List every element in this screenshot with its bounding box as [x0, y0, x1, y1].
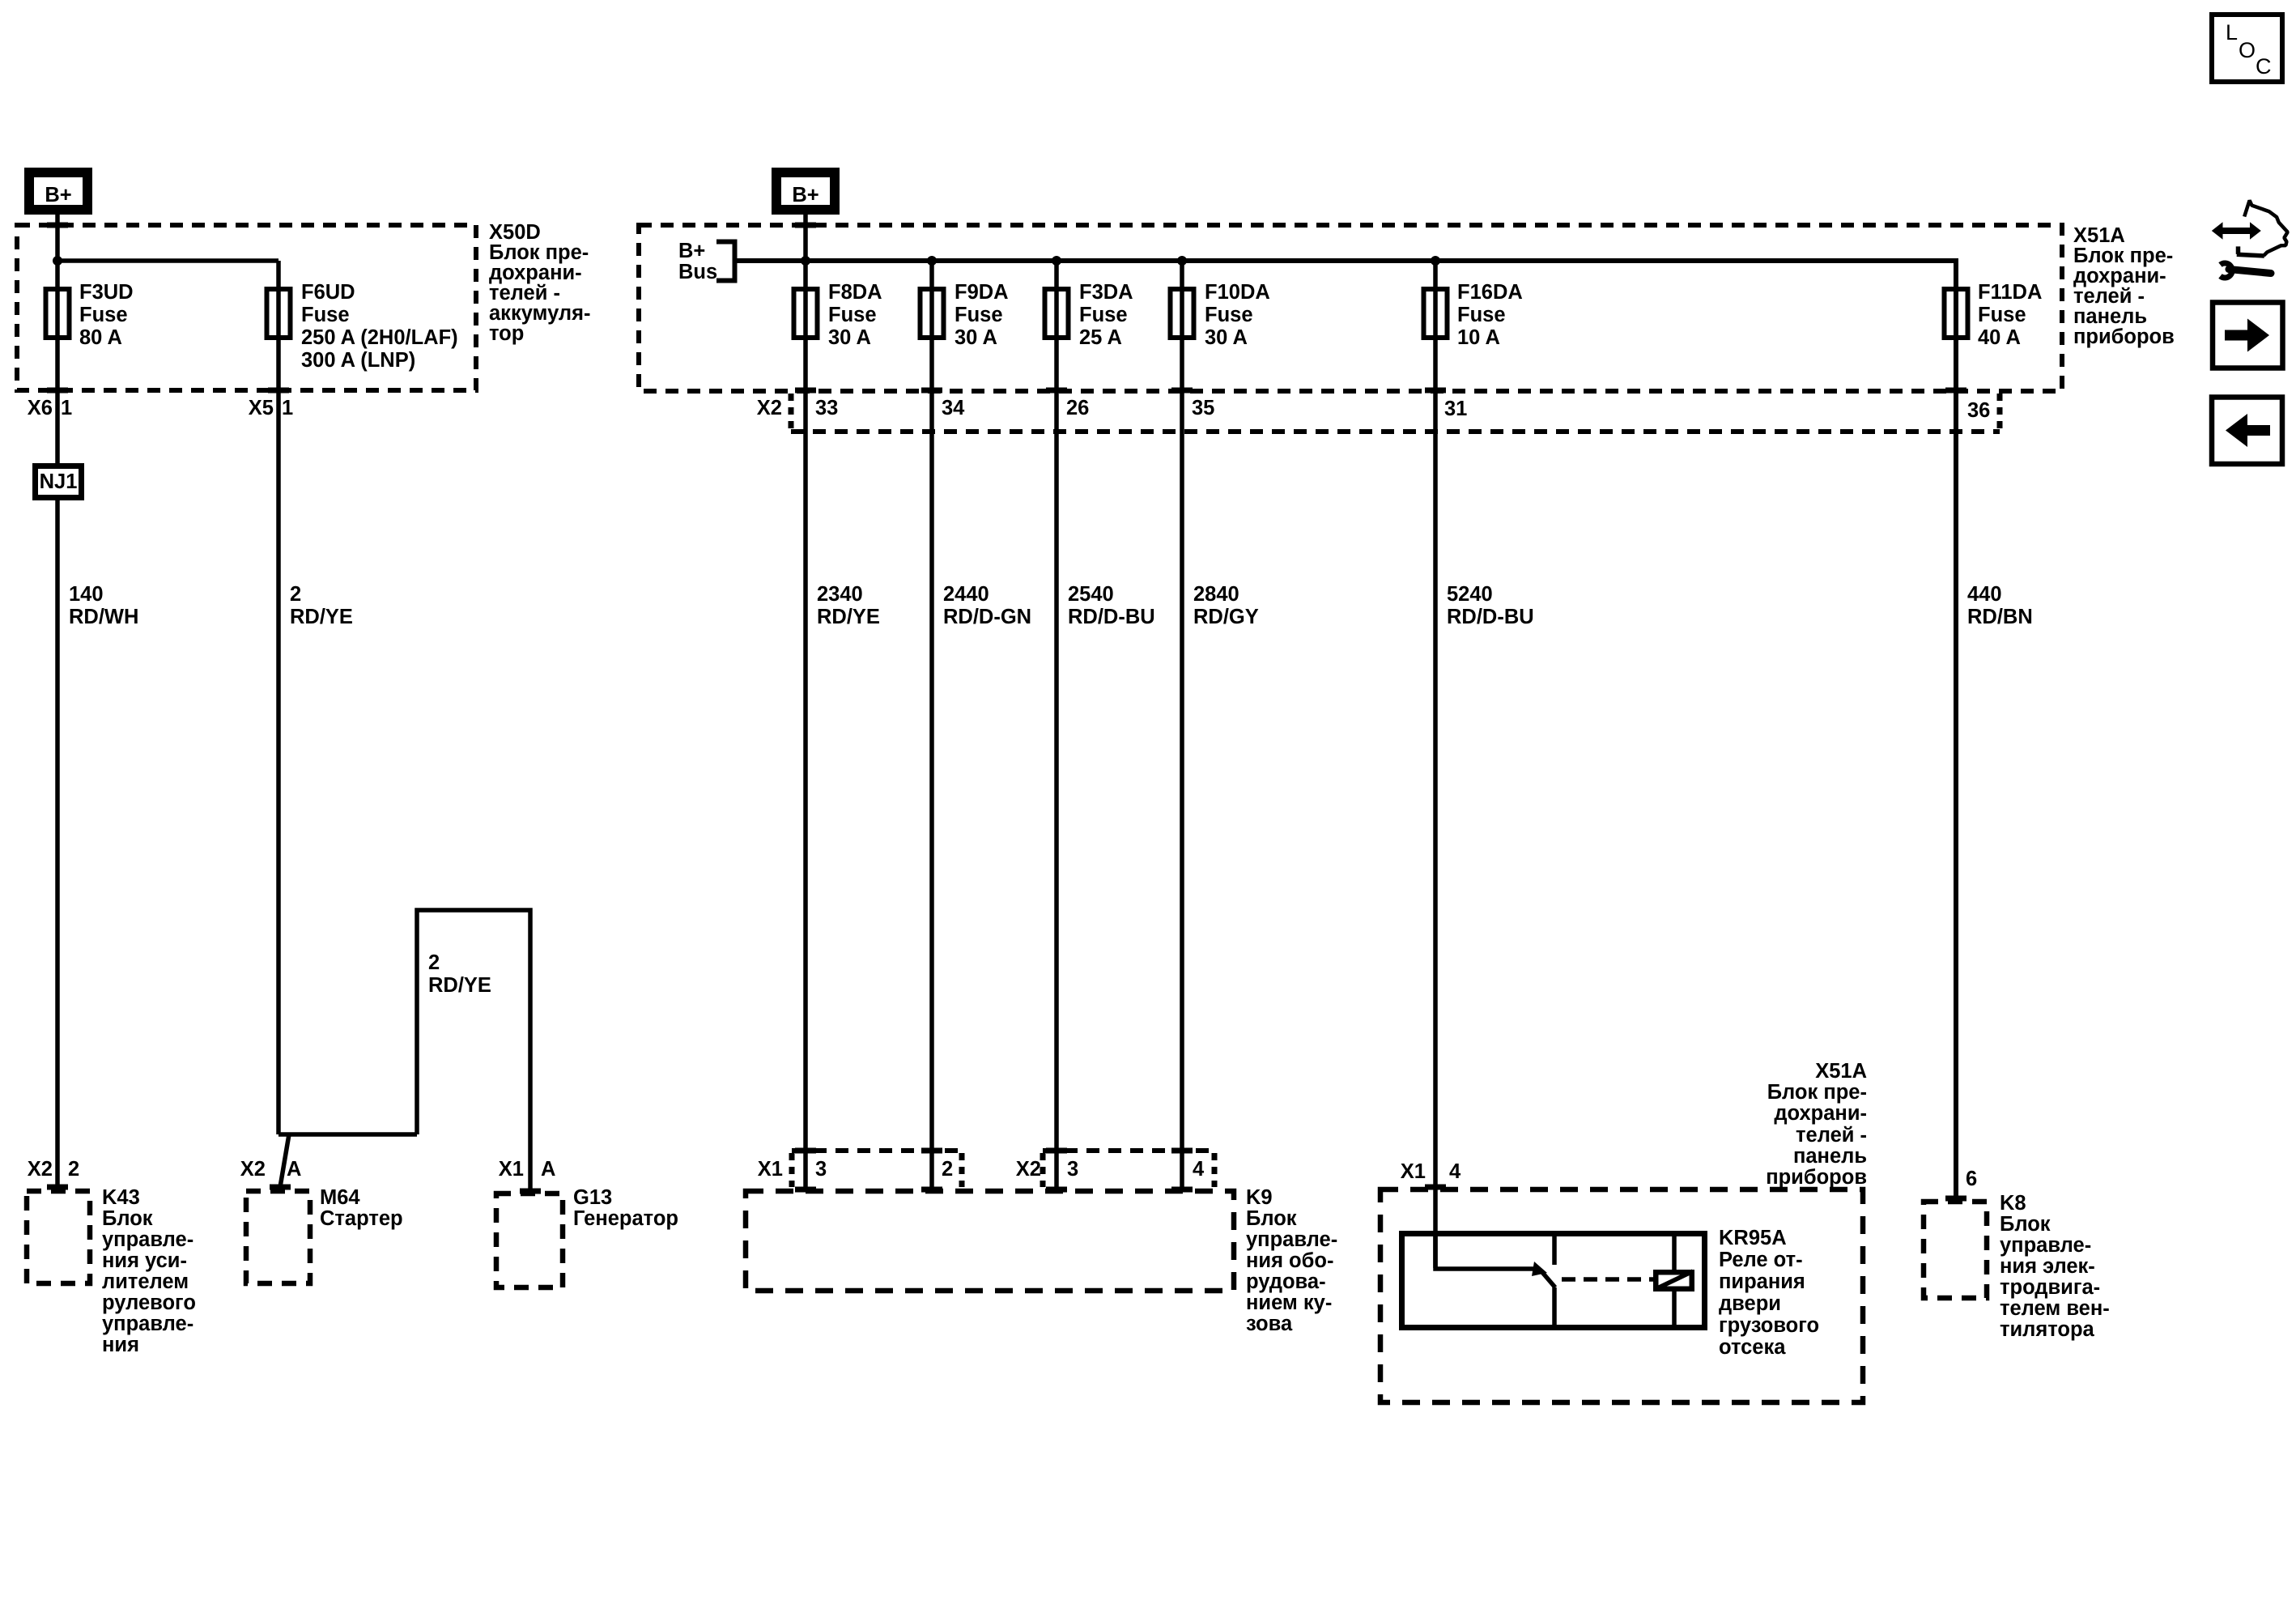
label L O C staggered — [2226, 20, 2272, 79]
fuse F8DA — [794, 289, 818, 338]
svg-text:40 A: 40 A — [1978, 326, 2021, 349]
K9 band 1 top dotted line — [792, 1148, 962, 1153]
svg-text:тродвига-: тродвига- — [2000, 1276, 2100, 1299]
fuse F3UD — [46, 289, 70, 338]
icon car silhouette outline — [2244, 201, 2288, 256]
relay switch armature — [1541, 1270, 1555, 1287]
svg-text:рулевого: рулевого — [102, 1291, 196, 1314]
svg-text:5240: 5240 — [1447, 583, 1493, 606]
svg-text:3: 3 — [1067, 1158, 1078, 1181]
node B+ Bus bracket — [716, 242, 735, 281]
svg-text:X2: X2 — [28, 1158, 53, 1181]
pin tick K9 wire 2 top — [921, 1148, 942, 1154]
relay contact arrowhead — [1532, 1262, 1547, 1276]
svg-text:2540: 2540 — [1068, 583, 1114, 606]
svg-text:2: 2 — [942, 1158, 953, 1181]
svg-text:Генератор: Генератор — [573, 1207, 678, 1230]
svg-text:Fuse: Fuse — [79, 304, 128, 326]
svg-text:RD/YE: RD/YE — [817, 606, 880, 628]
relay output contact (lower) — [1552, 1287, 1557, 1330]
icon double arrow shaft — [2220, 228, 2252, 234]
svg-text:дохрани-: дохрани- — [2073, 265, 2166, 287]
wire B+ bus horizontal — [735, 261, 1957, 1199]
svg-text:F16DA: F16DA — [1457, 281, 1523, 304]
icon box with left arrow — [2212, 398, 2282, 465]
pin tick K9 wire 3 top — [1046, 1148, 1067, 1154]
svg-text:NJ1: NJ1 — [40, 470, 78, 493]
svg-text:X2: X2 — [1016, 1158, 1041, 1181]
relay fixed contact (upper) — [1552, 1231, 1557, 1265]
svg-text:тор: тор — [489, 322, 524, 345]
svg-text:приборов: приборов — [2073, 326, 2175, 348]
svg-text:X2: X2 — [757, 397, 782, 419]
fuse F11DA — [1945, 289, 1968, 338]
fuse F10DA — [1171, 289, 1194, 338]
wire F6UD branch down (x=344) — [276, 261, 281, 1134]
svg-text:Fuse: Fuse — [1205, 304, 1253, 326]
power feed B+ (left) — [29, 172, 87, 210]
icon left arrow — [2226, 414, 2270, 447]
svg-text:35: 35 — [1192, 397, 1214, 419]
svg-text:дохрани-: дохрани- — [1774, 1102, 1867, 1125]
svg-text:2: 2 — [68, 1158, 79, 1181]
pin tick G13 pin A — [520, 1189, 541, 1194]
svg-text:Реле от-: Реле от- — [1719, 1249, 1803, 1271]
connector K8 dashed box — [1924, 1202, 1987, 1298]
svg-text:X1: X1 — [499, 1158, 524, 1181]
svg-text:440: 440 — [1967, 583, 2002, 606]
svg-text:140: 140 — [69, 583, 104, 606]
svg-text:34: 34 — [942, 397, 965, 419]
svg-text:телей -: телей - — [1796, 1124, 1867, 1147]
svg-text:Блок пре-: Блок пре- — [1767, 1081, 1867, 1104]
svg-text:ния: ния — [102, 1334, 139, 1356]
pin tick M64 pin A — [270, 1185, 291, 1190]
svg-text:4: 4 — [1193, 1158, 1205, 1181]
svg-text:A: A — [287, 1158, 301, 1181]
pin tick 26 — [1046, 388, 1067, 394]
svg-text:K8: K8 — [2000, 1192, 2026, 1215]
wire B+ to NJ1 (x=71) — [55, 215, 60, 463]
svg-text:Блок пре-: Блок пре- — [2073, 245, 2173, 267]
icon box with right arrow — [2213, 303, 2283, 368]
K9 band 1 right dotted edge — [959, 1153, 965, 1187]
fusebox X51A dashed outline — [639, 225, 2062, 391]
svg-text:пирания: пирания — [1719, 1270, 1805, 1293]
svg-text:F11DA: F11DA — [1978, 281, 2042, 304]
pin tick relay X1-4 — [1425, 1185, 1446, 1190]
svg-text:250 A (2H0/LAF): 250 A (2H0/LAF) — [301, 326, 458, 349]
svg-text:аккумуля-: аккумуля- — [489, 302, 591, 325]
svg-text:F8DA: F8DA — [828, 281, 882, 304]
svg-text:X51A: X51A — [2073, 224, 2125, 247]
pin tick B+ wire into X51A — [795, 223, 816, 228]
connector X2 band bottom line — [791, 429, 2000, 434]
node junction dot F3DA — [1052, 256, 1061, 266]
K9 band 2 top dotted line — [1043, 1148, 1214, 1153]
pin tick K9 wire 1 top — [795, 1148, 816, 1154]
K9 band 2 left dotted edge — [1040, 1153, 1046, 1187]
svg-text:B+: B+ — [45, 184, 71, 206]
svg-text:Fuse: Fuse — [1978, 304, 2026, 326]
svg-text:26: 26 — [1066, 397, 1089, 419]
svg-text:M64: M64 — [320, 1186, 360, 1209]
pin tick 33 — [795, 388, 816, 394]
wire into relay common — [1435, 1231, 1537, 1269]
svg-text:Стартер: Стартер — [320, 1207, 403, 1230]
svg-text:L: L — [2226, 20, 2238, 45]
svg-text:Fuse: Fuse — [1457, 304, 1506, 326]
svg-text:2340: 2340 — [817, 583, 863, 606]
svg-text:2: 2 — [428, 951, 440, 974]
svg-text:телей -: телей - — [2073, 285, 2145, 308]
svg-text:A: A — [541, 1158, 555, 1181]
icon wrench jaw — [2221, 263, 2233, 278]
svg-text:O: O — [2239, 38, 2256, 62]
svg-text:панель: панель — [2073, 305, 2147, 328]
wire NJ1 to K43 (x=71) — [55, 500, 60, 1189]
pin tick K9 wire 1 end — [795, 1187, 816, 1193]
icon wrench handle — [2229, 270, 2271, 274]
svg-text:управле-: управле- — [102, 1228, 193, 1251]
svg-text:30 A: 30 A — [828, 326, 871, 349]
connector X2 band right dotted edge — [1997, 394, 2003, 430]
fuse F6UD — [267, 289, 291, 338]
node junction dot F8DA — [801, 256, 810, 266]
K9 band 1 left dotted edge — [789, 1153, 795, 1187]
connector K9 dashed box — [746, 1191, 1234, 1291]
svg-text:X5: X5 — [249, 397, 274, 419]
relay KR95A box — [1402, 1234, 1705, 1328]
svg-text:1: 1 — [61, 397, 72, 419]
svg-text:RD/YE: RD/YE — [290, 606, 353, 628]
svg-text:K9: K9 — [1246, 1186, 1273, 1209]
pin tick K43 pin 2 — [47, 1185, 68, 1190]
svg-text:2840: 2840 — [1193, 583, 1239, 606]
svg-text:управле-: управле- — [1246, 1228, 1337, 1251]
svg-text:Блок пре-: Блок пре- — [489, 241, 589, 264]
svg-text:B+: B+ — [792, 184, 818, 206]
svg-text:телем вен-: телем вен- — [2000, 1297, 2110, 1320]
svg-text:X50D: X50D — [489, 221, 541, 244]
svg-text:KR95A: KR95A — [1719, 1227, 1787, 1249]
pin tick X5-1 — [268, 388, 289, 394]
svg-text:грузового: грузового — [1719, 1314, 1819, 1337]
svg-text:ния уси-: ния уси- — [102, 1249, 187, 1272]
pin tick K9 wire 4 top — [1171, 1148, 1193, 1154]
svg-text:RD/D-BU: RD/D-BU — [1068, 606, 1155, 628]
relay coil KR95A symbol — [1656, 1272, 1692, 1289]
svg-text:25 A: 25 A — [1079, 326, 1122, 349]
svg-text:RD/WH: RD/WH — [69, 606, 138, 628]
svg-text:36: 36 — [1967, 399, 1990, 422]
pin tick B+ wire into X50D — [47, 223, 68, 228]
svg-text:управле-: управле- — [102, 1313, 193, 1335]
pin tick X6-1 — [47, 388, 68, 394]
icon car sill hook — [2237, 246, 2264, 256]
svg-text:Блок: Блок — [1246, 1207, 1297, 1230]
svg-text:Fuse: Fuse — [1079, 304, 1128, 326]
wire branch M64 horizontal — [278, 1132, 417, 1137]
svg-text:отсека: отсека — [1719, 1336, 1786, 1359]
wire F10DA drop (x=1460) — [1180, 261, 1184, 1191]
pin tick 34 — [921, 388, 942, 394]
wire F16DA drop (x=1773) — [1433, 261, 1438, 1268]
svg-text:10 A: 10 A — [1457, 326, 1500, 349]
svg-text:RD/GY: RD/GY — [1193, 606, 1259, 628]
fusebox X50D dashed outline — [17, 225, 476, 390]
wire F3DA drop (x=1305) — [1054, 261, 1059, 1191]
pin tick K9 wire 2 end — [921, 1187, 942, 1193]
icon double arrow right head — [2250, 222, 2261, 239]
node junction dot F9DA — [927, 256, 937, 266]
svg-text:B+: B+ — [678, 240, 705, 262]
LOC reference box — [2212, 15, 2282, 82]
svg-text:300 A (LNP): 300 A (LNP) — [301, 349, 415, 372]
relay actuation dashed link — [1562, 1277, 1653, 1282]
icon double arrow left head — [2212, 222, 2223, 239]
node junction dot F16DA — [1431, 256, 1440, 266]
pin tick K8 pin 6 — [1945, 1196, 1966, 1202]
svg-text:F9DA: F9DA — [955, 281, 1009, 304]
fuse F3DA — [1045, 289, 1069, 338]
relay coil diagonal — [1656, 1271, 1693, 1289]
wire diagonal to M64 pin A — [280, 1134, 289, 1187]
svg-text:X6: X6 — [28, 397, 53, 419]
wire F8DA drop (x=995) — [803, 215, 808, 1191]
svg-text:лителем: лителем — [102, 1270, 189, 1293]
svg-text:ния элек-: ния элек- — [2000, 1255, 2095, 1278]
svg-text:2: 2 — [290, 583, 301, 606]
fuse F16DA — [1424, 289, 1448, 338]
svg-text:управле-: управле- — [2000, 1234, 2091, 1257]
node junction at X50D bus — [53, 256, 62, 266]
svg-text:F6UD: F6UD — [301, 281, 355, 304]
relay coil wire vertical lower — [1672, 1291, 1677, 1330]
pin tick 36 — [1945, 388, 1966, 394]
connector G13 dashed box — [496, 1194, 563, 1287]
svg-text:панель: панель — [1793, 1145, 1867, 1168]
power feed B+ (right) — [776, 172, 835, 210]
svg-text:RD/D-BU: RD/D-BU — [1447, 606, 1534, 628]
svg-text:F3UD: F3UD — [79, 281, 134, 304]
svg-text:1: 1 — [282, 397, 293, 419]
junction block NJ1 — [36, 466, 82, 498]
fusebox X51A lower dashed box — [1380, 1189, 1863, 1402]
svg-text:Fuse: Fuse — [955, 304, 1003, 326]
svg-text:Fuse: Fuse — [828, 304, 877, 326]
svg-text:Блок: Блок — [102, 1207, 153, 1230]
svg-text:30 A: 30 A — [1205, 326, 1248, 349]
svg-text:RD/YE: RD/YE — [428, 974, 491, 997]
svg-text:X1: X1 — [1401, 1160, 1426, 1183]
svg-text:приборов: приборов — [1766, 1166, 1867, 1189]
pin tick 35 — [1171, 388, 1193, 394]
relay coil wire vertical upper — [1672, 1231, 1677, 1270]
node junction dot F10DA — [1177, 256, 1187, 266]
svg-text:3: 3 — [815, 1158, 827, 1181]
pin tick K9 wire 4 end — [1171, 1187, 1193, 1193]
svg-text:двери: двери — [1719, 1292, 1781, 1315]
svg-text:2440: 2440 — [943, 583, 989, 606]
fuse F9DA — [921, 289, 944, 338]
svg-text:зова: зова — [1246, 1313, 1293, 1335]
connector X2 band left dotted edge — [789, 394, 794, 430]
svg-text:F3DA: F3DA — [1079, 281, 1133, 304]
svg-text:K43: K43 — [102, 1186, 140, 1209]
svg-text:X2: X2 — [240, 1158, 266, 1181]
svg-text:телей -: телей - — [489, 282, 560, 304]
svg-text:RD/BN: RD/BN — [1967, 606, 2033, 628]
svg-text:Bus: Bus — [678, 261, 717, 283]
connector K43 dashed box — [27, 1191, 90, 1283]
connector M64 dashed box — [246, 1191, 310, 1283]
pin tick K9 wire 3 end — [1046, 1187, 1067, 1193]
svg-text:RD/D-GN: RD/D-GN — [943, 606, 1031, 628]
pin tick 31 — [1425, 388, 1446, 394]
svg-text:C: C — [2256, 54, 2272, 79]
svg-text:F10DA: F10DA — [1205, 281, 1270, 304]
wire branch up to G13 — [417, 910, 530, 1191]
svg-text:33: 33 — [815, 397, 838, 419]
svg-text:дохрани-: дохрани- — [489, 262, 582, 284]
K9 band 2 right dotted edge — [1212, 1153, 1218, 1187]
icon right arrow — [2225, 319, 2269, 352]
wire X50D internal bus to F6UD — [57, 258, 278, 263]
svg-text:ния обо-: ния обо- — [1246, 1249, 1333, 1272]
svg-text:тилятора: тилятора — [2000, 1318, 2095, 1341]
svg-text:80 A: 80 A — [79, 326, 122, 349]
svg-text:30 A: 30 A — [955, 326, 997, 349]
svg-text:Fuse: Fuse — [301, 304, 350, 326]
svg-text:X51A: X51A — [1815, 1060, 1867, 1083]
svg-text:31: 31 — [1444, 398, 1467, 420]
wire F9DA drop (x=1151) — [929, 261, 934, 1191]
svg-text:4: 4 — [1449, 1160, 1461, 1183]
svg-text:6: 6 — [1966, 1168, 1977, 1190]
svg-text:G13: G13 — [573, 1186, 612, 1209]
svg-text:Блок: Блок — [2000, 1213, 2051, 1236]
svg-text:нием ку-: нием ку- — [1246, 1291, 1332, 1314]
svg-text:X1: X1 — [758, 1158, 783, 1181]
svg-text:рудова-: рудова- — [1246, 1270, 1326, 1293]
